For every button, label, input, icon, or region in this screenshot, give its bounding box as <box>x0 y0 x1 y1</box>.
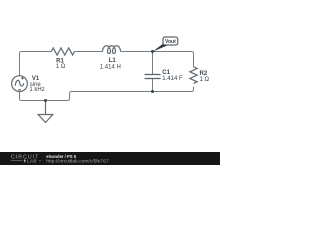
resistor R1 <box>51 48 74 55</box>
resistor R2 <box>190 67 197 84</box>
node C1 bottom junction dot <box>151 90 154 93</box>
svg-text:1.414 H: 1.414 H <box>100 64 121 70</box>
node Vout junction dot <box>151 50 154 53</box>
wire C1 bottom <box>152 79 154 92</box>
wire bottom-left rail <box>20 91 46 100</box>
svg-text:LAB: LAB <box>27 159 37 164</box>
wire top-left column <box>20 52 52 76</box>
svg-text:Vout: Vout <box>165 39 176 45</box>
wire bottom rail mid <box>46 92 153 101</box>
svg-text:1 Ω: 1 Ω <box>56 64 66 70</box>
wire C1 top <box>152 52 154 75</box>
svg-text:1.414 F: 1.414 F <box>162 76 183 82</box>
wires <box>20 52 194 101</box>
schematic background <box>0 0 220 165</box>
svg-text:C1: C1 <box>162 70 170 76</box>
capacitor C1 <box>145 75 161 79</box>
svg-text:http://circuitlab.com/c/5fe767: http://circuitlab.com/c/5fe767 <box>46 159 109 165</box>
ground <box>38 101 53 123</box>
node ground junction dot <box>44 99 47 102</box>
inductor L1 <box>103 46 121 54</box>
svg-text:L1: L1 <box>109 58 117 64</box>
footer bar <box>0 152 220 165</box>
CircuitLab logo <box>11 154 41 163</box>
voltage source V1 <box>12 76 28 92</box>
wire top rail L1 to corner <box>121 52 194 67</box>
Vout flag <box>153 37 178 52</box>
svg-text:1 Ω: 1 Ω <box>200 77 210 83</box>
wire top rail R1 to L1 <box>75 51 103 53</box>
svg-text:elsander / PS 5: elsander / PS 5 <box>46 154 76 159</box>
svg-text:V1: V1 <box>32 76 40 82</box>
svg-text:1 kHz: 1 kHz <box>29 87 44 93</box>
wire right column bottom <box>153 87 194 92</box>
svg-text:R2: R2 <box>200 71 208 77</box>
